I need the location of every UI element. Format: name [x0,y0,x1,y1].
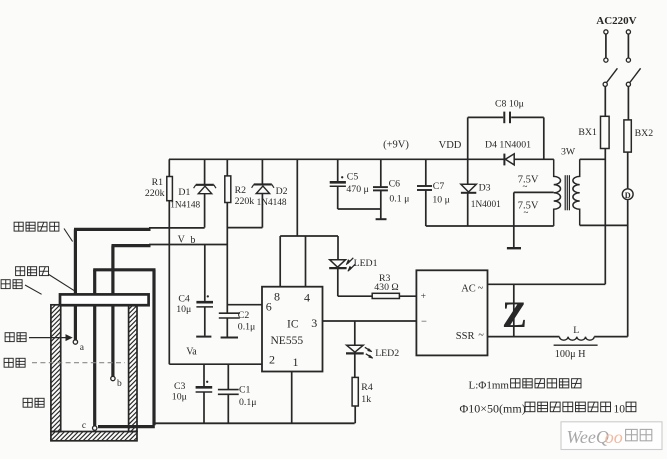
svg-text:C3: C3 [174,381,186,392]
electrode b terminal [111,376,115,380]
svg-text:BX1: BX1 [578,127,597,138]
label 100uH [554,344,598,346]
capacitor C6 0.1u [380,159,382,187]
wire electrode-c outer [152,270,155,425]
tank bottom wall [51,432,137,441]
wire L to motor [594,336,628,338]
svg-text:D1: D1 [178,187,190,198]
svg-text:7.5V: 7.5V [518,174,539,185]
ground center tap [507,247,521,249]
transformer T core [564,175,566,210]
svg-text:SSR: SSR [456,331,475,342]
motor D [622,189,633,200]
capacitor C4 10u [204,245,206,301]
svg-text:2: 2 [269,352,275,366]
svg-text:C7: C7 [433,181,445,192]
svg-text:BX2: BX2 [635,128,654,139]
svg-text:C6: C6 [389,178,401,189]
svg-text:~: ~ [524,208,529,218]
svg-text:1N4148: 1N4148 [170,200,200,210]
svg-text:AC: AC [461,284,476,295]
wire primary top [580,158,606,160]
svg-text:D4 1N4001: D4 1N4001 [485,140,531,151]
transformer T primary winding [573,159,580,225]
diode D1 1N4148 [204,159,206,184]
wire electrode-a thin [149,227,205,229]
wire Vb thin [149,244,227,246]
label yewei (liquid level) [4,358,13,367]
wire primary bottom [580,224,628,226]
wire secondary bottom rail [426,225,554,227]
svg-text:1: 1 [293,355,299,369]
diode D3 1N4001 [467,159,469,184]
wire electrode-c top [93,268,155,271]
label chibi (tank wall) [23,398,32,407]
svg-text:C1: C1 [239,385,251,396]
label gudingxian (fixing line) [16,267,25,276]
svg-text:1N4148: 1N4148 [257,198,287,208]
capacitor C1 0.1u [227,364,229,389]
wire pin6 link [227,304,262,306]
svg-text:~: ~ [523,182,528,192]
wire pin 8 drop [279,236,281,287]
svg-text:220k: 220k [145,188,165,199]
capacitor C3 10u [203,364,205,386]
svg-text:220k: 220k [235,196,255,207]
wire pin 1 drop [291,372,293,424]
switch S1 [603,82,607,86]
svg-text:~: ~ [478,283,484,294]
capacitor C8 10u [467,117,469,159]
svg-text:L: L [573,325,579,336]
transformer T secondary winding [554,159,561,225]
label suidaoxian (plastic wire) [14,222,23,231]
switch S2 [626,82,630,86]
plug terminal L1 [604,30,608,34]
wire bus drop [296,159,298,236]
svg-text:0.1 μ: 0.1 μ [389,194,409,205]
svg-text:3: 3 [311,316,317,330]
capacitor C7 10u [425,159,427,185]
svg-text:Z: Z [502,295,527,336]
wire center tap [514,191,554,193]
svg-text:C8 10μ: C8 10μ [495,98,524,109]
relay U2 SSR box [416,270,487,355]
svg-text:1k: 1k [361,394,371,405]
resistor R4 [352,377,358,406]
svg-text:NE555: NE555 [271,335,304,347]
svg-text:WeeQ: WeeQ [567,427,609,447]
svg-text:(+9V): (+9V) [383,140,409,151]
electrode a terminal [73,340,77,344]
liquid level dashed line [32,362,125,364]
svg-text:0.1μ: 0.1μ [239,397,257,408]
svg-text:oo: oo [605,427,623,447]
svg-text:b: b [117,379,122,389]
wire +9V/VDD bus [169,158,504,160]
svg-text:10: 10 [614,404,626,416]
label dianji (electrode) [5,333,14,342]
svg-text:R4: R4 [361,382,373,393]
svg-text:6: 6 [266,300,272,314]
label mubang (wood rod) [1,280,10,289]
svg-text:LED2: LED2 [375,348,399,359]
plug terminal L2 [626,30,630,34]
svg-text:c: c [82,421,86,431]
svg-text:8: 8 [274,289,280,303]
svg-text:−: − [421,317,427,328]
svg-text:L:Φ1mm: L:Φ1mm [469,380,510,392]
tank left wall [51,305,61,432]
resistor R1 [168,159,170,176]
svg-text:430 Ω: 430 Ω [374,282,398,293]
svg-text:10μ: 10μ [172,392,187,403]
svg-text:R2: R2 [235,185,247,196]
diode D4 1N4001 [503,154,505,166]
wire SSR out to L [488,336,560,338]
wire motor to L [627,200,629,337]
wire R3 to SSR+ [399,295,416,297]
svg-text:D: D [625,191,631,200]
wire pin 4 drop [305,236,307,287]
svg-text:4: 4 [304,290,310,304]
wire LED1 to R3 [338,295,372,297]
svg-text:Φ10×50(mm): Φ10×50(mm) [460,402,526,416]
svg-text:R1: R1 [152,177,164,188]
wire D2 to R2 link [227,227,262,229]
svg-text:D3: D3 [479,182,491,193]
svg-text:10 μ: 10 μ [432,195,450,206]
electrode c terminal [93,426,97,430]
svg-text:+: + [421,292,426,302]
svg-text:C2: C2 [238,310,250,321]
capacitor C2 0.1u [219,312,240,314]
resistor R2 [226,159,228,176]
wire SSR AC output [488,283,606,285]
svg-text:100μ H: 100μ H [555,349,586,360]
capacitor C5 470u [337,159,339,181]
svg-text:1N4001: 1N4001 [471,200,501,210]
inductor L [559,337,594,341]
svg-text:C5: C5 [347,171,359,182]
svg-text:VDD: VDD [439,140,462,151]
svg-text:~: ~ [478,330,484,341]
wire node Va [169,363,262,365]
diode D2 1N4148 [261,159,263,184]
tank right wall [129,305,137,432]
svg-text:IC: IC [287,318,299,330]
svg-text:0.1μ: 0.1μ [238,321,256,332]
svg-text:10μ: 10μ [176,304,191,315]
svg-text:3W: 3W [561,147,576,158]
svg-text:AC220V: AC220V [596,15,636,27]
svg-text:470 μ: 470 μ [346,184,368,195]
watermark box [561,422,662,450]
fuse BX2 [624,120,631,152]
wire Vb thick [112,244,151,247]
wire electrode-a thick [74,228,151,231]
wood rod [60,294,149,305]
varistor Z branch [513,284,515,336]
svg-text:D2: D2 [276,186,288,197]
svg-text:Va: Va [186,346,197,357]
fuse BX1 [601,116,610,148]
electrode c rod [93,270,96,426]
LED LED1 [337,236,339,260]
LED LED2 [354,321,356,345]
resistor R3 [372,293,399,298]
wire ground rail [154,422,354,424]
svg-text:LED1: LED1 [354,258,378,269]
wire pin 3 to SSR- [323,320,417,322]
op-amp U1 IC NE555 box [262,287,323,372]
wire IC top feed [280,235,338,237]
